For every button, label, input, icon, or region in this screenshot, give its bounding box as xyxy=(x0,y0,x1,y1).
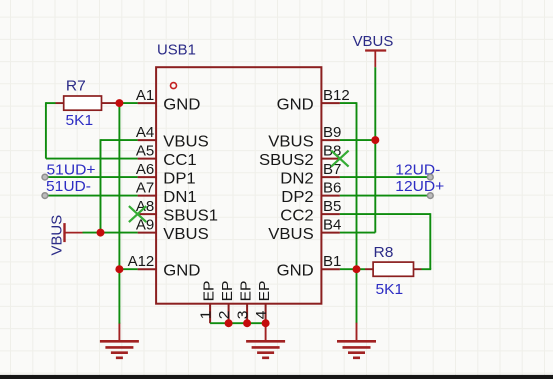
svg-text:B6: B6 xyxy=(323,181,341,197)
no-ERC cross on pin A8 xyxy=(129,206,146,222)
svg-text:VBUS: VBUS xyxy=(163,226,208,243)
svg-text:CC2: CC2 xyxy=(280,207,313,224)
svg-text:DN2: DN2 xyxy=(280,170,313,187)
wire GND vertical right (B12 to B1) xyxy=(356,102,358,269)
wire R8 right to corner xyxy=(422,268,432,270)
svg-text:12UD-: 12UD- xyxy=(395,162,440,178)
pin B6 (DP2) xyxy=(321,195,340,197)
svg-text:DP2: DP2 xyxy=(281,189,313,206)
junction EP3 xyxy=(243,319,251,327)
R7 right pin stub xyxy=(102,102,120,104)
svg-text:51UD-: 51UD- xyxy=(46,179,91,195)
svg-text:USB1: USB1 xyxy=(157,41,196,58)
bottom window edge bar xyxy=(0,375,553,379)
junction A9/VBUS xyxy=(97,229,105,237)
open wire end DN2 xyxy=(427,174,433,180)
junction A12/GND xyxy=(115,265,123,273)
svg-text:SBUS1: SBUS1 xyxy=(163,207,218,224)
svg-text:VBUS: VBUS xyxy=(48,215,65,256)
no-ERC cross on pin B8 xyxy=(331,151,348,167)
pin A6 (DP1) xyxy=(138,176,157,178)
svg-text:EP: EP xyxy=(220,281,236,302)
pin B8 (SBUS2) xyxy=(321,158,340,160)
wire 51UD- (DN1/A7) row xyxy=(44,195,138,197)
wire B9 (VBUS) row xyxy=(340,139,375,141)
svg-text:2: 2 xyxy=(217,310,233,319)
svg-text:B5: B5 xyxy=(323,199,341,215)
wire CC2 (B5) row xyxy=(340,213,430,215)
svg-text:GND: GND xyxy=(163,96,200,113)
svg-text:5K1: 5K1 xyxy=(376,282,404,298)
svg-text:VBUS: VBUS xyxy=(163,133,208,150)
wire 12UD- (DN2/B7) row xyxy=(340,176,430,178)
open wire end DP2 xyxy=(427,193,433,199)
wire VBUS vertical left (A4 to A9) xyxy=(100,139,102,232)
wire vertical R7-left down to CC1 row xyxy=(45,102,47,158)
pin B5 (CC2) xyxy=(321,213,340,215)
pin A12 (GND) xyxy=(138,268,157,270)
wire A1 junction to pin A1 xyxy=(119,102,137,104)
svg-text:B9: B9 xyxy=(323,125,341,141)
ground symbol left (A12 GND) xyxy=(100,341,139,358)
pin B12 (GND) xyxy=(321,102,340,104)
wire A12 junction to pin A12 xyxy=(119,268,137,270)
wire B4 (VBUS) row xyxy=(340,232,375,234)
R8 right pin stub xyxy=(414,268,422,270)
svg-text:A1: A1 xyxy=(136,88,154,104)
ground symbol center (EP GND) xyxy=(246,341,285,358)
resistor R7 xyxy=(64,96,102,110)
open wire end DP1 xyxy=(42,174,48,180)
open wire end DN1 xyxy=(42,193,48,199)
wire VBUS (A4) row xyxy=(101,139,138,141)
svg-text:51UD+: 51UD+ xyxy=(47,162,96,178)
wire 12UD+ (DP2/B6) row xyxy=(340,195,430,197)
resistor R8 xyxy=(373,262,413,276)
pin-1 indicator circle xyxy=(171,83,177,89)
ground stub EP xyxy=(265,323,267,341)
svg-text:GND: GND xyxy=(163,262,200,279)
svg-text:3: 3 xyxy=(236,310,252,319)
svg-text:GND: GND xyxy=(277,96,314,113)
svg-text:VBUS: VBUS xyxy=(268,226,313,243)
svg-text:B12: B12 xyxy=(323,88,350,104)
wire GND down to ground left xyxy=(118,269,120,323)
pin 4 (EP) xyxy=(265,304,267,324)
svg-text:A7: A7 xyxy=(136,181,154,197)
svg-text:CC1: CC1 xyxy=(163,152,196,169)
pin A9 (VBUS) xyxy=(138,232,157,234)
wire 51UD+ (DP1/A6) row xyxy=(44,176,138,178)
pin A8 (SBUS1) xyxy=(138,213,157,215)
svg-text:GND: GND xyxy=(277,262,314,279)
wire B12 to GND vertical xyxy=(340,102,357,104)
pin 3 (EP) xyxy=(246,304,248,324)
ground symbol right (B1 GND) xyxy=(337,341,376,358)
wire R7-left to corner xyxy=(46,102,56,104)
svg-text:A4: A4 xyxy=(136,125,154,141)
svg-text:A6: A6 xyxy=(136,162,154,178)
pin 2 (EP) xyxy=(228,304,230,324)
svg-text:VBUS: VBUS xyxy=(268,133,313,150)
svg-text:R7: R7 xyxy=(66,78,86,94)
wire junction to R8 left xyxy=(357,268,366,270)
pin A7 (DN1) xyxy=(138,195,157,197)
svg-text:SBUS2: SBUS2 xyxy=(259,152,314,169)
svg-text:EP: EP xyxy=(257,281,273,302)
junction EP2 xyxy=(225,319,233,327)
svg-text:12UD+: 12UD+ xyxy=(395,179,444,195)
ground stub right xyxy=(356,323,358,341)
wire CC1 (A5) row xyxy=(46,158,138,160)
junction B1/R8 xyxy=(353,265,361,273)
svg-text:B4: B4 xyxy=(323,218,341,234)
junction A1/R7 xyxy=(115,99,123,107)
ground stub left xyxy=(118,323,120,341)
svg-text:DN1: DN1 xyxy=(163,189,196,206)
svg-text:VBUS: VBUS xyxy=(353,33,394,50)
svg-text:EP: EP xyxy=(202,281,218,302)
pin B9 (VBUS) xyxy=(321,139,340,141)
svg-text:EP: EP xyxy=(239,281,255,302)
wire B1 to junction xyxy=(340,268,357,270)
svg-text:4: 4 xyxy=(254,310,270,319)
svg-text:DP1: DP1 xyxy=(163,170,195,187)
svg-text:A12: A12 xyxy=(128,254,155,270)
pin B1 (GND) xyxy=(321,268,340,270)
svg-text:B1: B1 xyxy=(323,254,341,270)
R7 left pin stub xyxy=(56,102,64,104)
pin B4 (VBUS) xyxy=(321,232,340,234)
wire GND vertical left (A1 to A12) xyxy=(118,103,120,269)
junction EP4 xyxy=(262,319,270,327)
wire A9 row junction to pin xyxy=(101,232,138,234)
wire VBUS vertical right xyxy=(374,67,376,232)
pin B7 (DN2) xyxy=(321,176,340,178)
R8 left pin stub xyxy=(365,268,373,270)
junction B9/VBUS xyxy=(371,136,379,144)
pin A1 (GND) xyxy=(138,102,157,104)
pin A4 (VBUS) xyxy=(138,139,157,141)
wire EP bus xyxy=(210,322,266,324)
svg-text:5K1: 5K1 xyxy=(66,113,94,129)
pin 1 (EP) xyxy=(209,304,211,324)
svg-text:A5: A5 xyxy=(136,144,154,160)
pin A5 (CC1) xyxy=(138,158,157,160)
wire CC2 vertical down to R8 xyxy=(429,213,431,269)
wire VBUS port stub to junction xyxy=(83,232,101,234)
svg-text:1: 1 xyxy=(199,310,215,319)
wire GND down to ground right xyxy=(356,269,358,323)
svg-text:R8: R8 xyxy=(374,245,394,261)
connector USB1 component body xyxy=(156,67,321,304)
